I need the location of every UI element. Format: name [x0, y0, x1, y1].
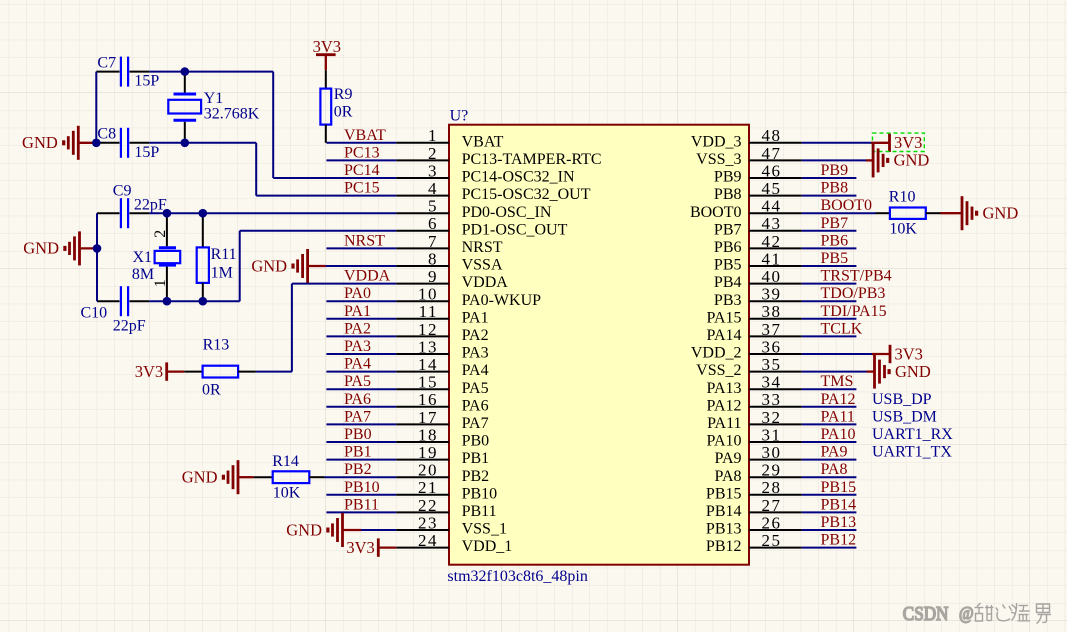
svg-text:TMS: TMS — [821, 373, 854, 390]
svg-text:VSSA: VSSA — [462, 257, 503, 274]
svg-text:PB12: PB12 — [821, 532, 857, 549]
svg-text:R11: R11 — [211, 246, 237, 263]
svg-text:3V3: 3V3 — [313, 37, 341, 56]
svg-text:PB5: PB5 — [821, 250, 849, 267]
svg-text:PA10: PA10 — [707, 433, 742, 450]
svg-text:PA0: PA0 — [344, 285, 371, 302]
svg-text:U?: U? — [450, 107, 469, 124]
svg-text:X1: X1 — [133, 249, 153, 266]
svg-text:PA12: PA12 — [707, 397, 742, 414]
svg-text:3V3: 3V3 — [894, 133, 922, 152]
svg-text:C8: C8 — [97, 125, 116, 142]
svg-text:PB14: PB14 — [706, 503, 742, 520]
svg-text:PB2: PB2 — [462, 468, 490, 485]
svg-text:PA6: PA6 — [462, 397, 489, 414]
svg-text:PA10: PA10 — [821, 426, 856, 443]
svg-text:TCLK: TCLK — [821, 320, 863, 337]
svg-text:GND: GND — [983, 204, 1019, 223]
svg-text:10K: 10K — [273, 484, 301, 501]
svg-text:PB13: PB13 — [821, 514, 857, 531]
svg-text:2: 2 — [152, 230, 169, 238]
svg-text:GND: GND — [286, 520, 322, 539]
svg-text:stm32f103c8t6_48pin: stm32f103c8t6_48pin — [447, 568, 587, 585]
svg-text:VBAT: VBAT — [462, 133, 504, 150]
svg-text:VBAT: VBAT — [344, 127, 386, 144]
svg-text:PB10: PB10 — [344, 479, 380, 496]
svg-text:PB14: PB14 — [821, 496, 857, 513]
svg-text:15P: 15P — [134, 73, 159, 90]
svg-text:C7: C7 — [97, 55, 116, 72]
svg-text:VDD_2: VDD_2 — [691, 345, 742, 362]
svg-text:PA8: PA8 — [715, 468, 742, 485]
svg-text:PA3: PA3 — [344, 338, 371, 355]
svg-text:USB_DP: USB_DP — [872, 391, 932, 408]
svg-text:1M: 1M — [211, 265, 233, 282]
svg-text:PA11: PA11 — [707, 415, 741, 432]
svg-text:PB9: PB9 — [714, 169, 742, 186]
svg-text:3V3: 3V3 — [346, 538, 374, 557]
svg-text:VDD_1: VDD_1 — [462, 538, 513, 555]
svg-text:UART1_TX: UART1_TX — [872, 444, 952, 461]
svg-text:PB2: PB2 — [344, 461, 372, 478]
svg-text:PB8: PB8 — [821, 180, 849, 197]
svg-text:USB_DM: USB_DM — [872, 408, 937, 425]
svg-text:VSS_3: VSS_3 — [696, 151, 741, 168]
svg-text:PB4: PB4 — [714, 274, 742, 291]
svg-text:PD0-OSC_IN: PD0-OSC_IN — [462, 204, 552, 221]
svg-text:PB7: PB7 — [821, 215, 849, 232]
svg-text:PB15: PB15 — [821, 479, 857, 496]
svg-text:R9: R9 — [334, 86, 353, 103]
svg-text:PB12: PB12 — [706, 538, 742, 555]
svg-text:PA7: PA7 — [344, 408, 371, 425]
svg-text:PA15: PA15 — [707, 309, 742, 326]
svg-text:PB6: PB6 — [714, 239, 742, 256]
svg-text:CSDN: CSDN — [903, 603, 949, 625]
svg-text:PA6: PA6 — [344, 391, 371, 408]
svg-text:C9: C9 — [113, 182, 132, 199]
svg-text:PB13: PB13 — [706, 521, 742, 538]
svg-text:PB7: PB7 — [714, 221, 742, 238]
svg-text:PA2: PA2 — [344, 320, 371, 337]
svg-text:PA1: PA1 — [344, 303, 371, 320]
svg-text:PA9: PA9 — [715, 450, 742, 467]
svg-text:GND: GND — [23, 239, 59, 258]
svg-text:BOOT0: BOOT0 — [821, 197, 873, 214]
svg-text:R14: R14 — [272, 453, 299, 470]
svg-text:PB1: PB1 — [462, 450, 490, 467]
svg-text:TDI/PA15: TDI/PA15 — [821, 303, 887, 320]
svg-text:PC13-TAMPER-RTC: PC13-TAMPER-RTC — [462, 151, 602, 168]
svg-text:PA2: PA2 — [462, 327, 489, 344]
svg-text:GND: GND — [251, 256, 287, 275]
svg-text:0R: 0R — [202, 381, 221, 398]
svg-text:PB10: PB10 — [462, 485, 498, 502]
svg-text:0R: 0R — [334, 103, 353, 120]
svg-text:PA13: PA13 — [707, 380, 742, 397]
svg-text:22pF: 22pF — [134, 196, 167, 213]
svg-text:PC15: PC15 — [344, 180, 380, 197]
svg-text:GND: GND — [22, 133, 58, 152]
svg-text:VDDA: VDDA — [344, 268, 391, 285]
svg-text:PB1: PB1 — [344, 444, 372, 461]
svg-text:Y1: Y1 — [204, 90, 224, 107]
svg-text:UART1_RX: UART1_RX — [872, 426, 953, 443]
svg-text:3V3: 3V3 — [895, 344, 923, 363]
svg-text:PA5: PA5 — [462, 380, 489, 397]
svg-text:TRST/PB4: TRST/PB4 — [821, 268, 892, 285]
svg-text:C10: C10 — [81, 305, 108, 322]
svg-text:PB3: PB3 — [714, 292, 742, 309]
svg-text:PA14: PA14 — [707, 327, 742, 344]
svg-text:PC13: PC13 — [344, 144, 380, 161]
svg-text:R10: R10 — [889, 189, 916, 206]
svg-text:GND: GND — [182, 468, 218, 487]
svg-text:32.768K: 32.768K — [204, 106, 260, 123]
svg-text:GND: GND — [894, 151, 930, 170]
svg-text:@: @ — [959, 603, 974, 623]
svg-text:PA3: PA3 — [462, 345, 489, 362]
svg-text:15P: 15P — [134, 144, 159, 161]
svg-text:PB11: PB11 — [462, 503, 497, 520]
svg-text:PC15-OSC32_OUT: PC15-OSC32_OUT — [462, 186, 591, 203]
svg-text:PA0-WKUP: PA0-WKUP — [462, 292, 542, 309]
svg-text:PA4: PA4 — [344, 356, 371, 373]
svg-text:NRST: NRST — [344, 232, 385, 249]
svg-text:VSS_1: VSS_1 — [462, 521, 507, 538]
svg-text:8M: 8M — [132, 266, 154, 283]
svg-text:NRST: NRST — [462, 239, 503, 256]
svg-text:GND: GND — [895, 362, 931, 381]
svg-text:PA1: PA1 — [462, 309, 489, 326]
svg-text:PA12: PA12 — [821, 391, 856, 408]
svg-text:PB11: PB11 — [344, 496, 379, 513]
svg-text:PB8: PB8 — [714, 186, 742, 203]
svg-text:PA8: PA8 — [821, 461, 848, 478]
svg-text:10K: 10K — [889, 221, 917, 238]
svg-text:PA4: PA4 — [462, 362, 489, 379]
svg-text:PA11: PA11 — [821, 408, 855, 425]
svg-text:TDO/PB3: TDO/PB3 — [821, 285, 886, 302]
svg-text:1: 1 — [152, 279, 169, 287]
svg-text:PB15: PB15 — [706, 485, 742, 502]
svg-text:VDD_3: VDD_3 — [691, 133, 742, 150]
svg-text:BOOT0: BOOT0 — [690, 204, 742, 221]
svg-text:PB9: PB9 — [821, 162, 849, 179]
svg-text:PD1-OSC_OUT: PD1-OSC_OUT — [462, 221, 568, 238]
svg-text:22pF: 22pF — [113, 317, 146, 334]
svg-text:PB5: PB5 — [714, 257, 742, 274]
svg-text:VDDA: VDDA — [462, 274, 509, 291]
svg-text:PC14-OSC32_IN: PC14-OSC32_IN — [462, 169, 575, 186]
svg-text:PA9: PA9 — [821, 444, 848, 461]
svg-text:PB6: PB6 — [821, 232, 849, 249]
svg-text:PA5: PA5 — [344, 373, 371, 390]
svg-text:VSS_2: VSS_2 — [696, 362, 741, 379]
svg-text:PA7: PA7 — [462, 415, 489, 432]
svg-text:PB0: PB0 — [462, 433, 490, 450]
svg-text:PB0: PB0 — [344, 426, 372, 443]
svg-text:3V3: 3V3 — [135, 362, 163, 381]
svg-text:R13: R13 — [203, 337, 230, 354]
svg-text:PC14: PC14 — [344, 162, 380, 179]
